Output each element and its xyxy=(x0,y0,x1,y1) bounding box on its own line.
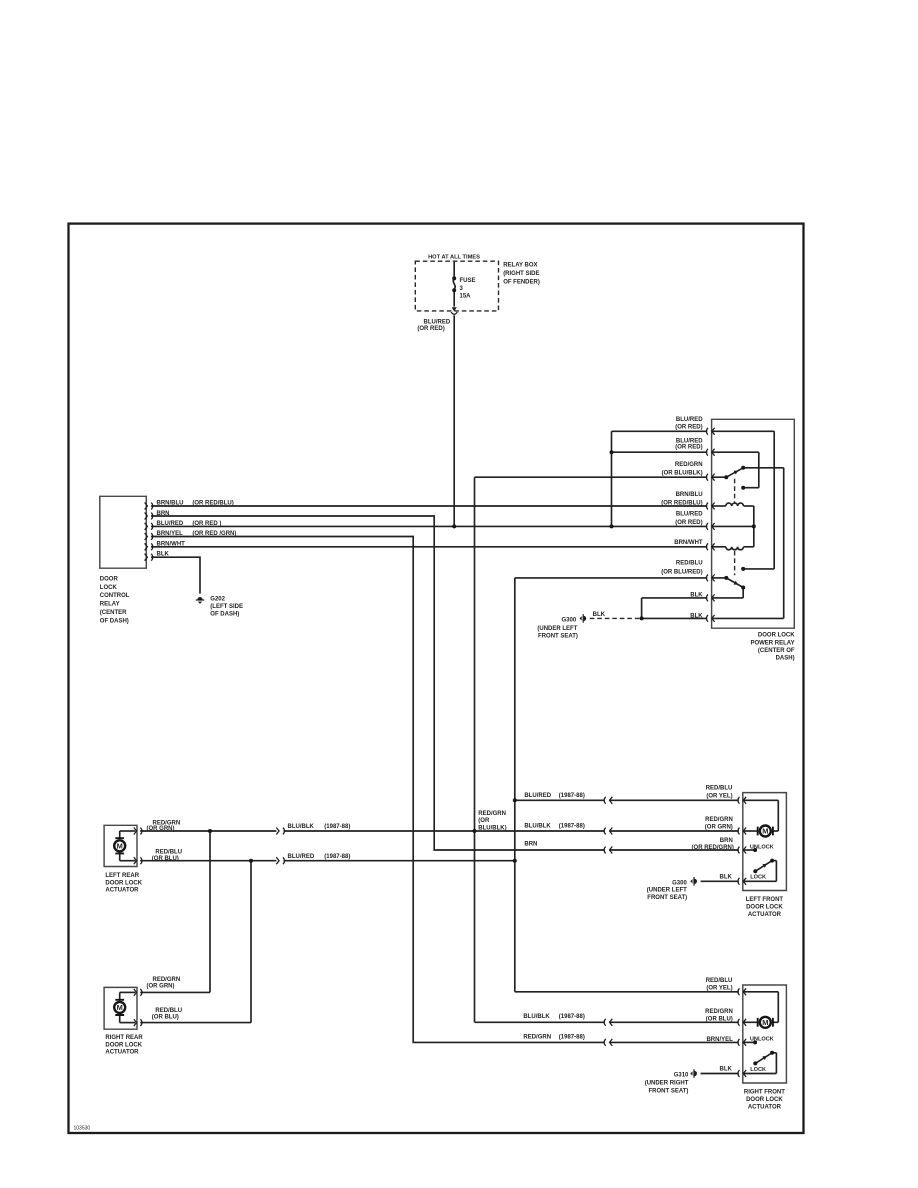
svg-text:DOOR LOCK: DOOR LOCK xyxy=(105,880,142,886)
svg-text:(OR GRN): (OR GRN) xyxy=(147,983,175,989)
svg-text:(UNDER LEFT: (UNDER LEFT xyxy=(647,888,687,894)
svg-text:(OR RED): (OR RED) xyxy=(675,520,702,526)
svg-text:HOT AT ALL TIMES: HOT AT ALL TIMES xyxy=(428,255,480,261)
svg-text:BRN/BLU: BRN/BLU xyxy=(676,492,703,498)
svg-text:BRN/BLU: BRN/BLU xyxy=(157,501,184,507)
svg-text:BLK: BLK xyxy=(720,875,733,881)
svg-text:(OR BLU/BLK): (OR BLU/BLK) xyxy=(662,471,703,477)
svg-text:(OR RED ): (OR RED ) xyxy=(192,521,221,527)
svg-text:LOCK: LOCK xyxy=(750,875,766,881)
svg-text:BLU/RED: BLU/RED xyxy=(157,521,184,527)
svg-text:15A: 15A xyxy=(460,293,472,299)
svg-text:(OR RED/BLU): (OR RED/BLU) xyxy=(661,501,702,507)
svg-text:(OR RED /GRN): (OR RED /GRN) xyxy=(192,531,236,537)
svg-text:RELAY: RELAY xyxy=(100,602,120,608)
svg-text:UNLOCK: UNLOCK xyxy=(750,1037,774,1043)
svg-text:M: M xyxy=(117,1003,123,1012)
svg-text:DOOR LOCK: DOOR LOCK xyxy=(758,633,795,639)
svg-text:BLU/BLK: BLU/BLK xyxy=(288,824,315,830)
svg-text:BLK: BLK xyxy=(157,552,170,558)
svg-text:BRN/WHT: BRN/WHT xyxy=(674,540,703,546)
svg-text:OF DASH): OF DASH) xyxy=(210,611,239,617)
svg-text:BLU/RED: BLU/RED xyxy=(524,793,551,799)
svg-text:DASH): DASH) xyxy=(776,656,795,662)
svg-text:RED/BLU: RED/BLU xyxy=(676,561,703,567)
svg-text:CONTROL: CONTROL xyxy=(100,593,130,599)
svg-text:BLU/RED: BLU/RED xyxy=(676,417,703,423)
svg-text:BLU/RED: BLU/RED xyxy=(288,854,315,860)
svg-text:POWER RELAY: POWER RELAY xyxy=(750,640,794,646)
svg-text:ACTUATOR: ACTUATOR xyxy=(105,888,139,894)
svg-text:(RIGHT SIDE: (RIGHT SIDE xyxy=(503,271,539,277)
svg-text:(1987-88): (1987-88) xyxy=(559,824,585,830)
svg-text:BRN/YEL: BRN/YEL xyxy=(157,531,184,537)
svg-text:BLK: BLK xyxy=(720,1067,733,1073)
svg-text:G300: G300 xyxy=(562,617,577,623)
svg-text:BRN: BRN xyxy=(524,841,537,847)
svg-text:RED/BLU: RED/BLU xyxy=(155,850,182,856)
svg-text:(OR YEL): (OR YEL) xyxy=(706,986,732,992)
svg-text:G300: G300 xyxy=(672,880,687,886)
svg-text:BLU/RED: BLU/RED xyxy=(424,319,451,325)
svg-text:M: M xyxy=(762,827,768,836)
svg-text:RED/BLU: RED/BLU xyxy=(706,786,733,792)
svg-text:DOOR LOCK: DOOR LOCK xyxy=(105,1042,142,1048)
svg-text:(OR BLU/RED): (OR BLU/RED) xyxy=(661,569,702,575)
svg-text:BLU/BLK: BLU/BLK xyxy=(523,1014,550,1020)
svg-text:BLU/RED: BLU/RED xyxy=(676,511,703,517)
svg-text:3: 3 xyxy=(460,286,464,292)
svg-text:LOCK: LOCK xyxy=(100,585,118,591)
svg-text:ACTUATOR: ACTUATOR xyxy=(748,1105,782,1111)
svg-text:(UNDER LEFT: (UNDER LEFT xyxy=(537,626,577,632)
svg-text:(OR YEL): (OR YEL) xyxy=(706,794,732,800)
svg-text:(1987-88): (1987-88) xyxy=(559,1035,585,1041)
svg-text:(CENTER: (CENTER xyxy=(100,610,127,616)
svg-text:BRN: BRN xyxy=(720,838,733,844)
svg-text:RED/BLU: RED/BLU xyxy=(155,1008,182,1014)
svg-text:(OR BLU): (OR BLU) xyxy=(152,856,179,862)
svg-text:RED/GRN: RED/GRN xyxy=(478,811,506,817)
svg-text:BRN/YEL: BRN/YEL xyxy=(706,1037,733,1043)
svg-text:RIGHT FRONT: RIGHT FRONT xyxy=(744,1089,785,1095)
svg-text:RED/BLU: RED/BLU xyxy=(706,978,733,984)
svg-text:(CENTER OF: (CENTER OF xyxy=(758,648,795,654)
svg-text:M: M xyxy=(762,1018,768,1027)
svg-text:M: M xyxy=(117,841,123,850)
svg-text:FRONT SEAT): FRONT SEAT) xyxy=(538,634,578,640)
svg-text:LOCK: LOCK xyxy=(750,1067,766,1073)
svg-text:BLU/RED: BLU/RED xyxy=(676,438,703,444)
svg-text:BLU/BLK: BLU/BLK xyxy=(524,824,551,830)
svg-text:RED/GRN: RED/GRN xyxy=(705,1009,733,1015)
svg-text:BLU/BLK): BLU/BLK) xyxy=(478,825,506,831)
svg-text:103530: 103530 xyxy=(74,1126,91,1132)
svg-text:RED/GRN: RED/GRN xyxy=(153,977,181,983)
svg-text:RED/GRN: RED/GRN xyxy=(523,1035,551,1041)
svg-text:(1987-88): (1987-88) xyxy=(324,824,350,830)
svg-text:FRONT SEAT): FRONT SEAT) xyxy=(647,895,687,901)
svg-text:DOOR: DOOR xyxy=(100,576,119,582)
svg-text:G202: G202 xyxy=(210,596,225,602)
svg-text:BRN/WHT: BRN/WHT xyxy=(157,541,186,547)
svg-text:RED/GRN: RED/GRN xyxy=(705,817,733,823)
svg-text:DOOR LOCK: DOOR LOCK xyxy=(746,905,783,911)
svg-text:RELAY BOX: RELAY BOX xyxy=(503,263,537,269)
svg-text:ACTUATOR: ACTUATOR xyxy=(105,1050,139,1056)
svg-text:(OR BLU): (OR BLU) xyxy=(152,1015,179,1021)
svg-text:(OR RED/BLU): (OR RED/BLU) xyxy=(192,501,233,507)
svg-text:OF DASH): OF DASH) xyxy=(100,618,129,624)
svg-text:(UNDER RIGHT: (UNDER RIGHT xyxy=(645,1080,689,1086)
svg-text:ACTUATOR: ACTUATOR xyxy=(748,912,782,918)
svg-text:(OR RED/GRN): (OR RED/GRN) xyxy=(692,845,734,851)
svg-text:LEFT FRONT: LEFT FRONT xyxy=(746,897,784,903)
svg-text:(OR: (OR xyxy=(478,818,490,824)
svg-text:BLK: BLK xyxy=(690,613,703,619)
svg-text:RED/GRN: RED/GRN xyxy=(675,462,703,468)
svg-text:BLK: BLK xyxy=(690,593,703,599)
svg-text:G310: G310 xyxy=(674,1072,689,1078)
svg-text:LEFT REAR: LEFT REAR xyxy=(105,873,139,879)
svg-text:DOOR LOCK: DOOR LOCK xyxy=(746,1097,783,1103)
svg-text:(OR GRN): (OR GRN) xyxy=(147,826,175,832)
svg-text:BLK: BLK xyxy=(593,612,606,618)
svg-text:BRN: BRN xyxy=(157,511,170,517)
svg-text:(OR BLU): (OR BLU) xyxy=(706,1017,733,1023)
svg-text:FRONT SEAT): FRONT SEAT) xyxy=(649,1088,689,1094)
svg-text:(1987-88): (1987-88) xyxy=(324,854,350,860)
svg-text:(1987-88): (1987-88) xyxy=(559,1014,585,1020)
svg-text:(OR RED): (OR RED) xyxy=(417,326,444,332)
svg-text:(LEFT SIDE: (LEFT SIDE xyxy=(210,604,243,610)
svg-text:(1987-88): (1987-88) xyxy=(559,793,585,799)
svg-text:(OR RED): (OR RED) xyxy=(675,445,702,451)
svg-text:(OR GRN): (OR GRN) xyxy=(705,824,733,830)
svg-text:UNLOCK: UNLOCK xyxy=(750,844,774,850)
svg-text:(OR RED): (OR RED) xyxy=(675,424,702,430)
svg-text:OF FENDER): OF FENDER) xyxy=(503,279,540,285)
svg-text:FUSE: FUSE xyxy=(460,278,476,284)
svg-text:RIGHT REAR: RIGHT REAR xyxy=(105,1035,143,1041)
